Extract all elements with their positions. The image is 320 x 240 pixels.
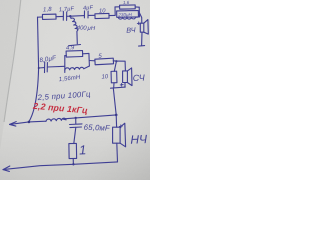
node A junction dot (69, 15, 71, 17)
left vertical wire (29, 17, 39, 122)
node D junction dot (28, 121, 31, 124)
capacitor C4 65uF plates (70, 124, 83, 128)
wire node B to speaker SCH (116, 61, 125, 71)
inductor L2 2,5mH bumps (46, 118, 66, 121)
wire R6 to rail (113, 83, 115, 88)
capacitor C2 4uF (84, 11, 88, 18)
node B junction dot (115, 60, 117, 62)
wire node C down to speaker NCH (115, 115, 117, 127)
input arrow lower (3, 166, 10, 171)
node C junction dot (115, 114, 118, 117)
page edge shading left (0, 0, 21, 150)
inductor L3 winding bumps (118, 17, 138, 19)
inductor L1 400uH hanging (70, 16, 77, 44)
wire row2 from left vertical (39, 67, 45, 69)
speaker BCH bottom lead (141, 32, 143, 45)
paper background (0, 0, 150, 180)
capacitor C4 65uF lead (75, 118, 77, 124)
wire right bracket 2 to R5 (89, 60, 95, 62)
speaker BCH lead end bar (139, 45, 145, 48)
wire R5 to node B (113, 60, 116, 62)
wire node A to C2 (70, 15, 84, 18)
speaker BCH plus mark (137, 22, 140, 25)
wire SCH rail down to node C (113, 88, 116, 115)
speaker NCH box (113, 127, 121, 143)
resistor R3 1,6 (120, 5, 136, 9)
parallel block 2 right bracket (88, 53, 91, 66)
wire node E to node C (76, 115, 117, 118)
wire R4 to right bracket 2 (83, 52, 89, 54)
resistor R7 1 vertical (69, 143, 77, 158)
speaker SCH bottom lead (124, 83, 126, 88)
capacitor C1 1,7uF (63, 12, 66, 21)
speaker NCH cone (120, 123, 126, 147)
resistor R5 5 (95, 58, 114, 65)
wire R2 to parallel block (109, 14, 115, 16)
photo grain (0, 0, 1, 1)
resistor R1 1,8 (42, 14, 56, 19)
speaker SCH cone (127, 68, 132, 86)
wire right bracket to speaker BCH (140, 13, 142, 23)
page edge line (4, 0, 21, 122)
inductor L3 230uH box (117, 11, 139, 18)
node G junction dot (38, 67, 40, 69)
resistor R4 4,9 (66, 51, 83, 58)
parallel block right bracket (138, 7, 140, 17)
resistor R6 10 vertical (111, 71, 117, 83)
input arrow upper (10, 122, 17, 127)
speaker BCH box (140, 23, 144, 32)
wire node B down to R6 (114, 61, 116, 71)
bottom rail wire (3, 162, 118, 170)
speaker NCH bottom lead (116, 143, 119, 162)
wire C1 to node A (67, 15, 71, 17)
speaker NCH plus mark (119, 125, 122, 128)
wire to R4 (65, 55, 67, 57)
speaker BCH cone (144, 20, 149, 34)
node E junction dot (75, 117, 77, 119)
SCH bottom rail (111, 87, 126, 88)
parallel block 2 left bracket (64, 56, 66, 73)
parallel block left bracket (114, 7, 116, 16)
node F junction dot (72, 163, 74, 165)
wire R1 to C1 (56, 15, 63, 17)
ground bar under L1 (69, 45, 81, 46)
capacitor C3 8,0uF (45, 62, 48, 73)
inductor L4 1,56mH bumps (65, 66, 89, 70)
wire C3 to parallel block 2 (47, 65, 64, 68)
speaker SCH plus mark (120, 83, 123, 86)
capacitor C4 bottom lead (74, 127, 76, 143)
wire L2 to node C2 (63, 118, 76, 119)
wire bracket to R3 (115, 6, 120, 8)
resistor R2 10 (95, 13, 109, 18)
wire upper input (10, 121, 46, 124)
wire C2 to R2 (88, 14, 95, 16)
speaker SCH box (123, 71, 128, 83)
wire top-left corner to R1 (38, 16, 43, 18)
wire R7 to bottom rail (72, 159, 74, 165)
wire R3 to right bracket (135, 6, 139, 8)
